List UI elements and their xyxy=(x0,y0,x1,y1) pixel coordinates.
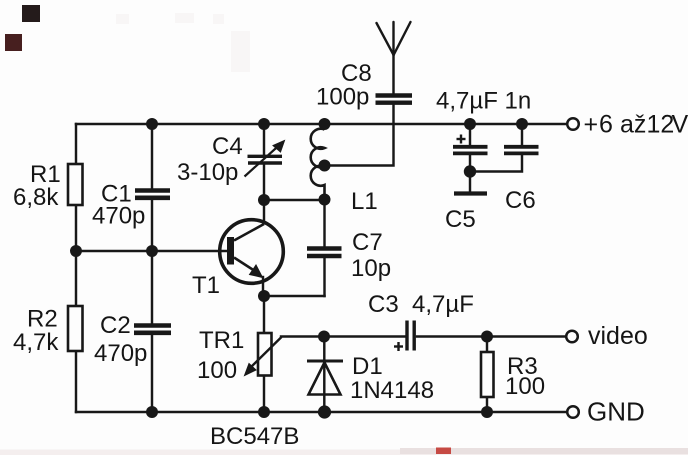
svg-text:470p: 470p xyxy=(94,340,147,367)
wire left rail upper xyxy=(75,124,77,164)
wire C1 branch lower xyxy=(151,200,153,251)
wire C7 bottom xyxy=(323,258,325,296)
terminal video xyxy=(566,331,578,343)
svg-text:TR1: TR1 xyxy=(199,327,244,354)
svg-text:video: video xyxy=(588,322,648,350)
trimmer TR1 body xyxy=(258,333,272,376)
svg-text:C3: C3 xyxy=(368,291,399,318)
ground bar under C5 xyxy=(454,191,487,195)
wire emitter vertical xyxy=(262,277,264,296)
wire TR1 bottom xyxy=(263,376,265,413)
svg-text:3-10p: 3-10p xyxy=(177,159,238,186)
wire D1 center xyxy=(323,337,325,413)
wire video right xyxy=(417,335,566,337)
svg-text:C6: C6 xyxy=(505,187,536,214)
resistor R1 xyxy=(68,164,83,205)
wire C6 bottom xyxy=(470,156,522,172)
svg-text:4,7µF: 4,7µF xyxy=(412,291,474,318)
capacitor C2 xyxy=(134,326,171,333)
scan smudge top xyxy=(116,13,250,72)
svg-text:C4: C4 xyxy=(212,133,243,160)
transistor T1 circle xyxy=(220,220,284,284)
capacitor C3 plus sign xyxy=(394,342,403,351)
svg-text:1N4148: 1N4148 xyxy=(350,377,434,404)
transistor T1 emitter stroke with arrow xyxy=(234,258,263,278)
wire TR1 top xyxy=(263,296,265,333)
scan artifact square top-left 1 xyxy=(22,5,40,22)
label plus supply xyxy=(584,111,688,139)
wire bottom rail xyxy=(76,411,567,413)
wire base row xyxy=(76,250,227,252)
transistor T1 collector stroke xyxy=(234,224,264,241)
inductor L1 coil xyxy=(311,129,325,200)
trimmer TR1 wiper arrow xyxy=(245,337,282,376)
svg-text:4,7k: 4,7k xyxy=(13,329,59,356)
svg-text:C2: C2 xyxy=(100,312,131,339)
wire C1 branch upper xyxy=(151,124,153,188)
antenna xyxy=(377,22,411,55)
wire C6 top xyxy=(521,124,523,145)
capacitor C6 xyxy=(504,147,539,154)
terminal GND xyxy=(567,406,579,418)
capacitor C5 plus sign xyxy=(457,135,466,144)
svg-text:100p: 100p xyxy=(316,84,369,111)
svg-text:GND: GND xyxy=(587,397,645,427)
wire video left xyxy=(281,335,405,337)
wire C7 top xyxy=(323,200,325,246)
svg-text:D1: D1 xyxy=(352,353,383,380)
svg-text:100: 100 xyxy=(505,373,545,400)
wire R3 top xyxy=(486,337,488,353)
wire L1 tap to C8 xyxy=(325,105,394,166)
svg-text:C5: C5 xyxy=(445,206,476,233)
capacitor C7 xyxy=(307,249,342,257)
svg-text:L1: L1 xyxy=(351,188,378,215)
wire antenna feed xyxy=(392,55,394,94)
wire emitter row xyxy=(264,295,325,297)
wire collector node horizontal xyxy=(264,199,325,201)
svg-text:10p: 10p xyxy=(351,255,391,282)
wire R3 bottom xyxy=(486,397,488,412)
wire C2 branch lower xyxy=(151,335,153,412)
capacitor C4 arrow xyxy=(245,141,285,177)
diode D1 triangle xyxy=(309,363,341,395)
wire top rail xyxy=(76,123,567,125)
wire C4 branch upper xyxy=(263,124,265,154)
svg-text:až: až xyxy=(620,111,646,139)
svg-text:12: 12 xyxy=(647,111,675,139)
capacitor C5 electrolytic plates xyxy=(453,147,488,154)
wire C5 bottom xyxy=(469,156,471,191)
svg-text:C7: C7 xyxy=(352,229,383,256)
wire C2 branch upper xyxy=(151,251,153,323)
terminal +V xyxy=(567,118,579,130)
capacitor C8 xyxy=(376,96,413,103)
svg-text:6: 6 xyxy=(599,111,613,139)
capacitor C3 series plates xyxy=(407,321,414,351)
diode D1 cathode bar xyxy=(307,360,343,363)
svg-text:T1: T1 xyxy=(192,272,220,299)
wire left rail middle xyxy=(75,205,77,306)
svg-text:100: 100 xyxy=(197,357,237,384)
svg-text:6,8k: 6,8k xyxy=(13,184,59,211)
svg-text:V: V xyxy=(672,111,688,139)
svg-text:+: + xyxy=(584,111,599,139)
capacitor C4 variable plates xyxy=(248,156,283,163)
capacitor C1 xyxy=(135,191,170,198)
wire C4 bottom to collector xyxy=(263,165,265,223)
wire left rail lower xyxy=(75,351,77,412)
resistor R3 xyxy=(481,352,494,397)
transistor T1 base bar xyxy=(227,237,234,265)
scan artifact square top-left 2 xyxy=(5,34,22,51)
wire C5 top xyxy=(469,124,471,145)
resistor R2 xyxy=(68,306,83,351)
scan smudge bottom band xyxy=(0,450,688,455)
svg-text:4,7µF 1n: 4,7µF 1n xyxy=(436,88,531,115)
scan red dash bottom xyxy=(436,448,451,455)
svg-text:BC547B: BC547B xyxy=(210,423,299,450)
svg-text:470p: 470p xyxy=(92,203,145,230)
